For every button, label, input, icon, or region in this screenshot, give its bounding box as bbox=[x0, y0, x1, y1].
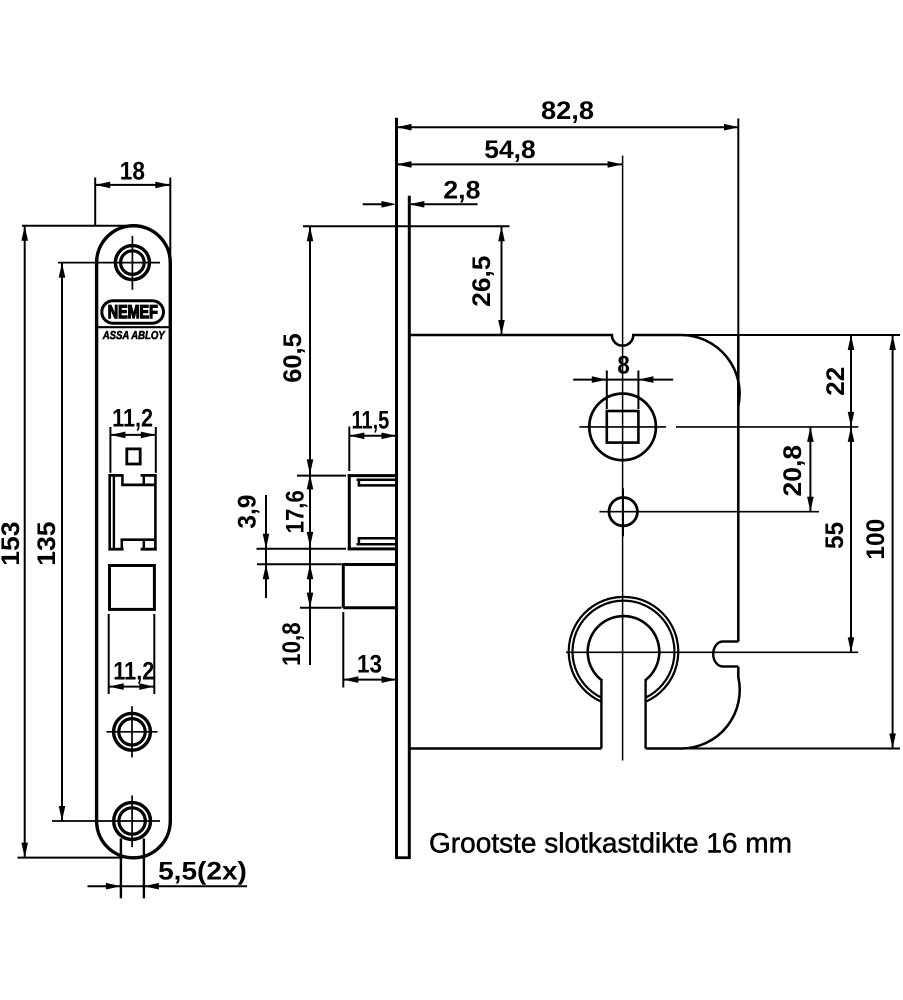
dimension 11,2 lower extension line right bbox=[153, 614, 155, 694]
svg-text:5,5(2x): 5,5(2x) bbox=[158, 857, 247, 885]
latch side view left face bbox=[348, 474, 351, 550]
case top edge extension to the right bbox=[672, 334, 901, 336]
dimension 10,8 arrow bottom bbox=[307, 593, 314, 608]
latch bevel line bbox=[113, 477, 115, 549]
cylinder cutout second arc bbox=[573, 601, 675, 698]
latch cutout bottom-left step vertical bbox=[121, 540, 124, 550]
spindle hub circle bbox=[589, 394, 656, 461]
latch cutout top inner horizontal bbox=[121, 484, 155, 487]
spindle horizontal centerline right part / 22-55 extension bbox=[676, 426, 858, 428]
latch cutout top-left step vertical bbox=[121, 475, 124, 485]
cylinder horizontal centerline / 55 extension bbox=[566, 651, 858, 653]
spindle adjuster square hole bbox=[127, 449, 140, 464]
cylinder inner circle (cylinder body profile) bbox=[588, 616, 660, 680]
NEMEF logo stadium outline bbox=[102, 301, 164, 324]
svg-text:Grootste slotkastdikte 16 mm: Grootste slotkastdikte 16 mm bbox=[429, 828, 792, 859]
dimension 11,2 lower arrow left bbox=[109, 683, 124, 690]
dimension 100 arrow top bbox=[889, 335, 896, 350]
dimension 22 and 55 shared line bbox=[850, 335, 852, 652]
small hole crosshair vertical bbox=[622, 488, 624, 536]
dimension 11,2 lower arrow right bbox=[139, 683, 154, 690]
dimension 8 arrow left bbox=[592, 376, 607, 383]
dimension 5,5(2x) arrow right bbox=[144, 883, 159, 890]
case bottom edge extension to the right bbox=[672, 748, 901, 750]
dimension 11,2 lower line bbox=[109, 686, 155, 688]
latch side view top edge bbox=[348, 474, 398, 477]
dimension 26,5 line bbox=[501, 226, 503, 335]
dimension 135 arrow top bbox=[59, 263, 66, 278]
dimension 5,5(2x) line bbox=[88, 885, 248, 887]
svg-text:22: 22 bbox=[822, 367, 850, 396]
bottom screw hole crosshair vertical bbox=[131, 795, 133, 847]
dimension 20,8 line bbox=[809, 427, 811, 512]
dimension 82,8 line bbox=[397, 126, 740, 128]
svg-text:10,8: 10,8 bbox=[278, 622, 306, 666]
svg-text:13: 13 bbox=[357, 651, 382, 679]
svg-text:153: 153 bbox=[0, 522, 25, 566]
bottom screw slot left line bbox=[120, 839, 122, 899]
latch cutout right edge bbox=[154, 474, 157, 550]
dimension 2,8 tail line left bbox=[363, 203, 382, 205]
dimension 5,5(2x) arrow left bbox=[106, 883, 121, 890]
latch cutout top-right ear vertical bbox=[143, 475, 146, 485]
dimension 20,8 arrow bottom bbox=[807, 497, 814, 512]
cylinder cutout outer arc bbox=[569, 597, 679, 702]
dimension 8 extension line right bbox=[637, 371, 639, 410]
svg-text:60,5: 60,5 bbox=[279, 333, 307, 383]
dimension 153 arrow top bbox=[21, 226, 28, 241]
spindle square hole bbox=[607, 411, 639, 443]
dimension 11,2 upper extension line left bbox=[109, 427, 111, 473]
bottom screw slot right line bbox=[143, 839, 145, 899]
middle screw hole crosshair horizontal bbox=[107, 731, 158, 733]
bottom screw hole inner circle bbox=[119, 808, 145, 834]
dimension 11,5 arrow left bbox=[349, 433, 364, 440]
dimension 10,8 arrow top bbox=[307, 564, 314, 579]
dimension 18 arrow left bbox=[95, 182, 110, 189]
svg-text:20,8: 20,8 bbox=[779, 445, 807, 497]
case top edge with notch bbox=[409, 335, 682, 346]
dimension 55 arrow top bbox=[848, 427, 855, 442]
case back edge upper segment bbox=[737, 335, 740, 642]
middle screw hole outer circle bbox=[114, 713, 151, 750]
dimension 3,9 arrow upper bbox=[263, 534, 270, 549]
dimension 13 line bbox=[343, 679, 396, 681]
cylinder slot left line bbox=[600, 679, 602, 749]
dimension 8 line bbox=[573, 379, 673, 381]
top screw hole crosshair vertical bbox=[131, 236, 133, 290]
dimension 18 line bbox=[95, 184, 170, 186]
svg-text:54,8: 54,8 bbox=[484, 136, 535, 164]
spindle horizontal centerline left part bbox=[579, 426, 666, 428]
latch cutout top edge left segment bbox=[108, 474, 123, 477]
dimension 13 extension line bbox=[342, 612, 344, 688]
deadbolt cutout rectangle bbox=[110, 566, 155, 610]
datum extension line at plate top bbox=[22, 225, 131, 227]
extension line block bottom left bbox=[300, 607, 342, 609]
deadbolt block side view top edge bbox=[343, 563, 398, 566]
svg-text:11,5: 11,5 bbox=[352, 406, 390, 434]
cylinder slot right line bbox=[644, 679, 646, 749]
case top-right corner arc bbox=[682, 335, 740, 406]
dimension 3,9 arrow lower bbox=[263, 564, 270, 579]
latch cutout bottom edge left segment bbox=[108, 548, 123, 551]
dimension 82,8 arrow right bbox=[724, 124, 739, 131]
top screw hole inner circle bbox=[121, 251, 145, 275]
case back edge lower segment bbox=[737, 667, 740, 678]
dimension 153 arrow bottom bbox=[21, 843, 28, 858]
dimension 22 arrow top bbox=[848, 335, 855, 350]
latch cutout left edge bbox=[108, 474, 111, 550]
deadbolt block side view bottom edge bbox=[343, 606, 398, 609]
datum line at plate top (side view) bbox=[303, 225, 510, 227]
dimension 54,8 arrow right bbox=[608, 161, 623, 168]
latch side view inner line A bottom bbox=[357, 543, 396, 546]
dimension 17,6 arrow top bbox=[307, 474, 314, 489]
dimension 11,2 upper line bbox=[110, 434, 155, 436]
svg-text:17,6: 17,6 bbox=[281, 490, 309, 533]
dimension 82,8 arrow left bbox=[397, 124, 412, 131]
svg-text:NEMEF: NEMEF bbox=[108, 301, 158, 322]
dimension 135 line bbox=[61, 263, 63, 821]
dimension 60,5 arrow bottom bbox=[307, 459, 314, 474]
dimension 60,5 arrow top bbox=[307, 226, 314, 241]
svg-text:8: 8 bbox=[617, 352, 629, 380]
svg-text:135: 135 bbox=[33, 522, 61, 566]
dimension 11,2 lower extension line left bbox=[108, 614, 110, 694]
case back edge notch lower lip bbox=[723, 665, 738, 667]
dimension 11,5 arrow right bbox=[382, 433, 397, 440]
dimension 135 arrow bottom bbox=[59, 806, 66, 821]
dimension 13 arrow left bbox=[343, 676, 358, 683]
extension line latch bottom left bbox=[257, 548, 347, 550]
extension line at plate bottom / 153 bottom bbox=[18, 857, 124, 859]
dimension 11,2 upper arrow left bbox=[110, 432, 125, 439]
latch side view inner line A top bbox=[357, 479, 396, 482]
dimension 3,9 line bbox=[265, 495, 267, 598]
dimension 11,5 extension line bbox=[348, 427, 350, 472]
auxiliary small hole circle bbox=[609, 498, 637, 526]
case back edge notch upper lip bbox=[723, 640, 738, 642]
separator line under logo bbox=[98, 326, 169, 328]
svg-text:11,2: 11,2 bbox=[113, 658, 154, 686]
dimension 55 arrow bottom bbox=[848, 637, 855, 652]
top screw hole crosshair horizontal / 135 extension line bbox=[58, 262, 160, 264]
small hole crosshair horizontal / 20,8 extension bbox=[599, 511, 819, 513]
case bottom-right corner arc bbox=[682, 677, 740, 749]
dimension 11,5 line bbox=[349, 435, 396, 437]
case back edge extension line up bbox=[737, 119, 739, 336]
dimension 8 extension line left bbox=[606, 371, 608, 410]
dimension 11,2 upper extension line right bbox=[155, 427, 157, 473]
dimension 18 extension line right bbox=[169, 178, 171, 264]
dimension 2,8 line right bbox=[409, 203, 477, 205]
latch cutout bottom inner horizontal bbox=[121, 538, 156, 541]
latch cutout bottom edge right segment bbox=[141, 548, 157, 551]
dimension 8 arrow right bbox=[638, 376, 653, 383]
dimension 54,8 line bbox=[397, 163, 623, 165]
deadbolt block side view left face bbox=[342, 563, 345, 608]
latch side view step vertical bottom bbox=[358, 537, 361, 545]
case back edge notch arc bbox=[713, 642, 723, 667]
extension line block top left bbox=[257, 563, 342, 565]
svg-text:26,5: 26,5 bbox=[468, 256, 496, 307]
dimension 26,5 arrow top bbox=[498, 226, 505, 241]
svg-text:2,8: 2,8 bbox=[443, 176, 480, 204]
svg-text:3,9: 3,9 bbox=[234, 495, 262, 529]
dimension 11,2 upper arrow right bbox=[141, 432, 156, 439]
dimension 2,8 arrow right bbox=[409, 201, 424, 208]
vertical centerline through spindle and cylinder bbox=[622, 156, 624, 761]
svg-text:100: 100 bbox=[862, 519, 890, 560]
latch side view inner line B top bbox=[358, 484, 398, 487]
dimension 20,8 arrow top bbox=[807, 427, 814, 442]
faceplate side view front line bbox=[395, 118, 398, 858]
svg-text:11,2: 11,2 bbox=[112, 404, 153, 432]
latch cutout top edge right segment bbox=[141, 474, 157, 477]
case bottom edge right segment bbox=[646, 747, 682, 750]
extension line at bottom screw hole / 135 bottom bbox=[52, 820, 160, 822]
dimension 153 line bbox=[24, 226, 26, 858]
case bottom edge left segment bbox=[409, 747, 601, 750]
dimension 18 arrow right bbox=[155, 182, 170, 189]
dimension 2,8 arrow left bbox=[382, 201, 397, 208]
dimension 18 extension line left bbox=[94, 178, 96, 227]
svg-text:18: 18 bbox=[120, 158, 145, 186]
extension line latch top left bbox=[297, 475, 346, 477]
latch side view bottom edge bbox=[348, 547, 398, 550]
svg-text:82,8: 82,8 bbox=[541, 97, 594, 125]
latch cutout bottom-right ear vertical bbox=[143, 540, 146, 550]
latch side view step vertical top bbox=[358, 478, 361, 486]
dimension 26,5 arrow bottom bbox=[498, 320, 505, 335]
middle screw hole inner circle bbox=[119, 719, 145, 745]
dimension 17,6 arrow bottom bbox=[307, 532, 314, 547]
bottom screw hole outer circle bbox=[114, 803, 151, 840]
dimension 54,8 arrow left bbox=[397, 161, 412, 168]
dimension 13 arrow right bbox=[382, 676, 397, 683]
faceplate side view back line bbox=[408, 196, 411, 858]
dimension 22 arrow bottom bbox=[848, 412, 855, 427]
faceplate outline (front view, stadium shape) bbox=[97, 226, 171, 858]
svg-text:ASSA ABLOY: ASSA ABLOY bbox=[102, 330, 166, 342]
top screw hole outer circle bbox=[115, 246, 149, 280]
latch side view inner line B bottom bbox=[358, 537, 398, 540]
faceplate side view bottom cap bbox=[395, 856, 411, 859]
middle screw hole crosshair vertical bbox=[131, 706, 133, 757]
dimension 100 line bbox=[892, 335, 894, 749]
dimension 60,5 17,6 10,8 shared chain line bbox=[309, 226, 311, 665]
dimension 100 arrow bottom bbox=[889, 734, 896, 749]
svg-text:55: 55 bbox=[821, 522, 849, 549]
